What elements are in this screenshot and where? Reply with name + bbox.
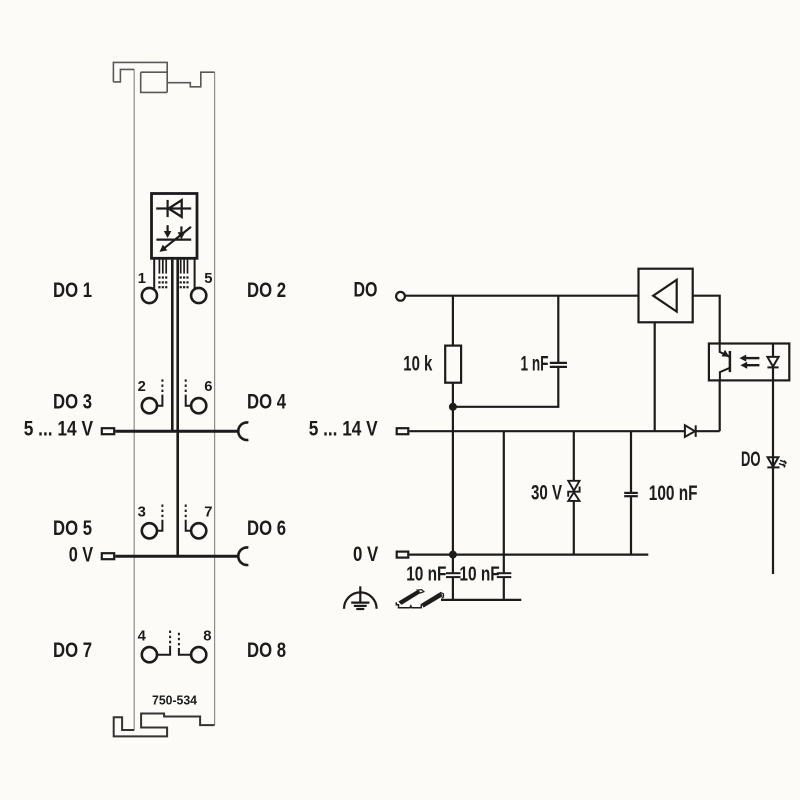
internal bus wire to 5-14V rail <box>171 260 174 431</box>
pin 4 <box>142 647 157 662</box>
svg-text:5 ... 14 V: 5 ... 14 V <box>24 416 94 440</box>
svg-text:4: 4 <box>138 629 147 645</box>
pin 8 dashed stub <box>178 631 180 646</box>
5-14V terminal right <box>397 428 409 434</box>
I/O module bottom DIN-rail clip profile <box>114 714 215 737</box>
LED ribbon wire to pin 5 <box>194 260 196 289</box>
node DO open terminal <box>396 292 405 301</box>
pin 7 dashed stub <box>185 503 187 517</box>
diode D1 cathode bar <box>695 425 697 437</box>
pin 5 <box>191 288 206 303</box>
svg-text:10 k: 10 k <box>403 352 432 375</box>
capacitor C3 upper plate <box>446 572 461 574</box>
capacitor C3 lower plate <box>446 576 461 578</box>
wire opto emitter to 5-14V rail <box>719 380 721 431</box>
pin 4 dashed stub <box>169 629 171 644</box>
capacitor C2 upper plate <box>624 492 638 494</box>
pin 7 <box>191 523 206 538</box>
svg-text:DO 5: DO 5 <box>53 516 92 540</box>
svg-text:DO 6: DO 6 <box>247 516 286 540</box>
0V terminal left <box>102 553 114 559</box>
5-14V rail wire <box>409 430 684 432</box>
pin 2 stub <box>157 395 162 406</box>
I/O module right body edge <box>214 72 216 725</box>
opto LED anode lead <box>772 344 774 357</box>
resistor R1 10k body <box>445 346 461 383</box>
indicator LED cathode bar <box>767 466 779 468</box>
capacitor C1 upper plate <box>550 362 567 364</box>
indicator LED triangle <box>768 457 779 466</box>
transistor Q1 collector lead <box>720 344 730 357</box>
pin 1 <box>142 288 157 303</box>
capacitor C3 lower lead <box>452 577 454 600</box>
LED ribbon wire to pin 1 <box>153 260 155 289</box>
capacitor C2 lower lead <box>630 496 632 554</box>
pin 8 stub <box>179 648 191 655</box>
wire R1 junction down to 0V <box>452 407 454 555</box>
svg-text:10 nF: 10 nF <box>406 563 446 585</box>
LED ribbon dotted continuation left <box>158 276 167 288</box>
resistor R1 upper lead <box>452 296 454 346</box>
LED indicator box <box>152 194 198 259</box>
capacitor C4 feed wire from 5-14V rail <box>503 431 505 573</box>
light arrow upper <box>744 357 759 359</box>
0V terminal right <box>397 552 409 558</box>
svg-text:DO: DO <box>354 278 378 302</box>
svg-text:750-534: 750-534 <box>152 693 198 708</box>
capacitor C3 upper lead <box>452 555 454 574</box>
svg-text:0 V: 0 V <box>353 542 379 566</box>
op-amp U1 triangle <box>653 280 677 312</box>
svg-text:3: 3 <box>138 504 146 520</box>
svg-text:1 nF: 1 nF <box>521 353 549 376</box>
svg-text:DO 8: DO 8 <box>247 638 286 662</box>
capacitor C4 lower plate <box>497 576 512 578</box>
wire U1 supply lead <box>654 322 656 431</box>
0V rail wire <box>409 553 648 555</box>
svg-text:10 nF: 10 nF <box>459 563 499 585</box>
zener VZ lead upper <box>573 431 575 481</box>
svg-text:DO 7: DO 7 <box>53 638 92 662</box>
functional earth bus wire <box>441 599 521 601</box>
LED box diode symbol <box>156 200 191 217</box>
junction node dot B on 0V rail <box>449 551 457 559</box>
capacitor C4 lower lead <box>503 577 505 600</box>
5-14V terminal left <box>102 428 114 434</box>
diode D1 triangle <box>685 425 695 437</box>
transistor Q1 base bar <box>729 351 732 372</box>
transistor Q1 emitter lead <box>720 368 730 381</box>
svg-text:DO 2: DO 2 <box>247 278 286 302</box>
pin 2 <box>142 398 157 413</box>
wire D1 to opto emitter vertical <box>696 430 720 432</box>
LED ribbon short wires right <box>181 260 188 274</box>
0V field rail <box>115 555 238 558</box>
LED ribbon short wires left <box>159 260 166 274</box>
earth ground symbol <box>344 586 377 609</box>
DIN carrier rail symbol <box>396 590 443 608</box>
svg-text:DO: DO <box>741 447 761 471</box>
svg-text:7: 7 <box>204 504 212 520</box>
svg-text:DO 3: DO 3 <box>53 389 92 413</box>
opto LED cathode bar <box>767 366 778 368</box>
svg-text:DO 4: DO 4 <box>247 389 286 413</box>
resistor R1 lower lead <box>452 383 454 407</box>
opto LED triangle <box>767 357 778 367</box>
pin 2 dashed stub <box>161 378 163 393</box>
svg-text:0 V: 0 V <box>69 542 94 566</box>
svg-text:1: 1 <box>138 271 146 287</box>
capacitor C2 lower plate <box>624 495 638 497</box>
svg-text:8: 8 <box>203 629 211 645</box>
zener VZ lead lower <box>573 501 575 555</box>
capacitor C1 upper lead <box>557 296 559 363</box>
op-amp U1 box <box>639 269 693 323</box>
pin 4 stub <box>157 646 170 655</box>
indicator LED light arrows <box>779 460 786 467</box>
pin 3 dashed stub <box>161 503 163 517</box>
svg-text:30 V: 30 V <box>531 481 562 504</box>
svg-text:6: 6 <box>204 379 212 395</box>
wire opto LED down to indicator <box>772 380 774 574</box>
pin 8 <box>191 647 206 662</box>
pin 6 stub <box>186 395 191 406</box>
light arrow lower <box>745 364 759 366</box>
5-14V C-connector <box>238 422 248 440</box>
LED ribbon dotted continuation right <box>180 276 189 288</box>
capacitor C2 upper lead <box>630 431 632 493</box>
opto LED cathode lead <box>772 367 774 380</box>
svg-text:5: 5 <box>204 271 212 287</box>
5-14V field rail <box>115 430 238 433</box>
pin 3 <box>142 523 157 538</box>
capacitor C4 upper plate <box>497 572 512 574</box>
optocoupler U2 box <box>709 344 789 381</box>
svg-text:5 ... 14 V: 5 ... 14 V <box>309 416 379 440</box>
transistor Q1 collector arrowhead <box>722 350 730 357</box>
zener VZ 30V symbol <box>568 481 579 501</box>
svg-text:DO 1: DO 1 <box>53 278 92 302</box>
pin 3 stub <box>157 520 162 531</box>
wire U1 output to optocoupler <box>693 296 720 344</box>
I/O module left body edge <box>133 69 135 730</box>
pin 6 dashed stub <box>185 378 187 393</box>
svg-text:2: 2 <box>138 379 146 395</box>
pin 6 <box>191 398 206 413</box>
I/O module top mounting profile <box>113 62 214 92</box>
junction node dot A <box>449 403 457 411</box>
pin 7 stub <box>186 520 191 531</box>
wire DO line <box>405 295 639 297</box>
capacitor C1 lower plate <box>550 366 567 368</box>
LED box light-indicator symbol <box>156 225 191 252</box>
svg-text:100 nF: 100 nF <box>649 482 698 505</box>
wire junction A to capacitor C1 <box>453 367 558 407</box>
0V C-connector <box>238 547 248 565</box>
internal bus wire to 0V rail <box>176 260 179 556</box>
